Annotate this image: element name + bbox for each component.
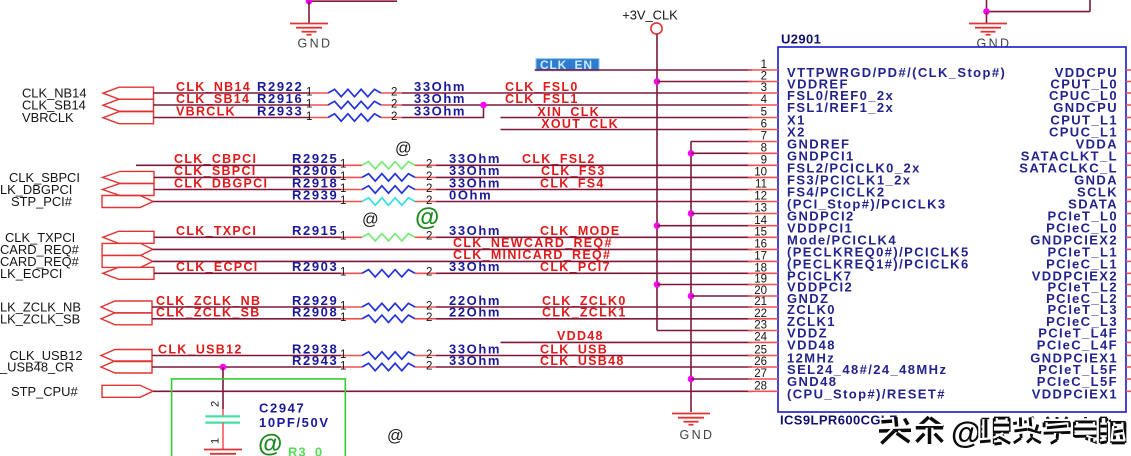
wire STP_CPU# (153, 390, 752, 392)
pin 23 stub (748, 330, 778, 332)
pin 15 stub (748, 236, 778, 238)
pin 5 stub (748, 117, 778, 119)
svg-text:24: 24 (754, 332, 767, 344)
svg-text:19: 19 (754, 274, 767, 286)
pin 13 right stub (1126, 213, 1131, 215)
pin 9 stub (748, 164, 778, 166)
svg-text:@: @ (362, 211, 379, 229)
wire CLK_FS3 (436, 176, 752, 178)
svg-text:2: 2 (426, 349, 432, 361)
junction capacitor tap (220, 364, 227, 371)
wire CLK_DBGPCI (154, 189, 341, 191)
pin 24 right stub (1126, 341, 1131, 343)
svg-text:12: 12 (754, 191, 767, 203)
svg-text:1: 1 (306, 98, 312, 110)
svg-text:18: 18 (754, 263, 767, 275)
pin 4 right stub (1126, 104, 1131, 106)
capacitor C2947 (205, 401, 240, 450)
resistor R2916 (306, 98, 402, 110)
pin 2 right stub (1126, 81, 1131, 83)
pin 21 right stub (1126, 306, 1131, 308)
wire XOUT_CLK (501, 129, 753, 131)
svg-text:1: 1 (340, 183, 346, 195)
wire pin 19 VDDPCI2 (657, 284, 752, 286)
svg-text:1: 1 (340, 171, 346, 183)
port CLK_DBGPCI (103, 184, 155, 196)
pin 9 right stub (1126, 164, 1131, 166)
wire CLK_MINICARD_REQ# (153, 260, 752, 262)
port STP_PCI# (102, 196, 153, 208)
svg-text:2: 2 (426, 300, 432, 312)
svg-text:1: 1 (340, 267, 346, 279)
pin 19 right stub (1126, 284, 1131, 286)
svg-text:25: 25 (754, 345, 767, 357)
svg-text:8: 8 (761, 143, 767, 155)
svg-text:CLK_USB12: CLK_USB12 (158, 342, 243, 356)
pin 10 stub (748, 176, 778, 178)
svg-text:2: 2 (391, 98, 397, 110)
svg-text:23: 23 (754, 320, 767, 332)
svg-text:STP_PCI#: STP_PCI# (11, 194, 73, 209)
pin 26 right stub (1126, 366, 1131, 368)
svg-text:17: 17 (754, 251, 767, 263)
svg-text:LK_ZCLK_SB: LK_ZCLK_SB (0, 311, 80, 326)
svg-text:VBRCLK: VBRCLK (22, 110, 74, 125)
resistor R2918 (340, 183, 436, 195)
port CLK_ZCLK_NB (101, 301, 152, 313)
wire top-left horizontal (309, 0, 397, 2)
pin 19 stub (748, 284, 778, 286)
svg-text:R2933: R2933 (257, 103, 303, 118)
port STP_CPU# (102, 385, 153, 397)
wire CLK_USB12 (152, 355, 341, 357)
svg-text:CLK_PCI7: CLK_PCI7 (540, 260, 611, 274)
pin 22 right stub (1126, 318, 1131, 320)
power +3V_CLK symbol (651, 23, 662, 34)
pin 3 right stub (1126, 92, 1131, 94)
svg-text:1: 1 (340, 159, 346, 171)
resistor R2943 (340, 360, 436, 372)
wire +3V_CLK vertical bus (656, 34, 658, 331)
wire STP_PCI# (153, 201, 341, 203)
port CLK_ECPCI (103, 267, 154, 279)
svg-text:R2939: R2939 (292, 187, 338, 202)
svg-text:CLK_FSL1: CLK_FSL1 (505, 92, 579, 106)
pin 25 stub (748, 355, 778, 357)
port CLK_NEWCARD_REQ# (102, 243, 153, 255)
pin 11 stub (748, 189, 778, 191)
port CLK_SB14 (103, 99, 154, 111)
svg-text:CLK_DBGPCI: CLK_DBGPCI (174, 176, 268, 190)
pin 15 right stub (1126, 236, 1131, 238)
wire CLK_USB (436, 355, 752, 357)
wire pin 13 GNDPCI2 (691, 213, 752, 215)
svg-text:33Ohm: 33Ohm (449, 259, 501, 274)
pin 18 stub (748, 272, 778, 274)
watermark Toutiao @gen wo xue dian nao (879, 415, 1126, 450)
svg-text:1: 1 (340, 300, 346, 312)
pin 7 right stub (1126, 141, 1131, 143)
pin 20 right stub (1126, 295, 1131, 297)
wire CLK_ZCLK_SB (152, 318, 341, 320)
svg-text:_USB48_CR: _USB48_CR (0, 360, 74, 375)
pin 3 stub (748, 92, 778, 94)
wire CLK_CBPCI (136, 164, 341, 166)
pin 20 stub (748, 295, 778, 297)
svg-text:1: 1 (306, 111, 312, 123)
wire CLK_ZCLK0 (436, 306, 752, 308)
wire capacitor branch vertical (222, 367, 224, 409)
ground GND bottom-center (672, 414, 714, 443)
wire CLK_EN (535, 69, 752, 71)
junction pin 20 (688, 293, 695, 300)
svg-text:22: 22 (754, 308, 767, 320)
junction top-left (306, 0, 313, 5)
ground below capacitor (204, 450, 242, 454)
wire CLK_SBPCI (154, 176, 341, 178)
svg-text:2: 2 (426, 171, 432, 183)
pin 6 right stub (1126, 129, 1131, 131)
svg-text:@: @ (395, 140, 412, 158)
pin 21 stub (748, 306, 778, 308)
svg-text:@: @ (387, 427, 404, 445)
port USB48_CR (101, 361, 152, 373)
svg-text:U2901: U2901 (781, 32, 821, 47)
pin 7 stub (748, 141, 778, 143)
svg-text:GND: GND (298, 37, 333, 51)
wire R2933 output jog (402, 105, 484, 118)
svg-text:2: 2 (426, 360, 432, 372)
resistor R2903 (340, 267, 436, 279)
svg-text:1: 1 (340, 195, 346, 207)
svg-text:2: 2 (426, 312, 432, 324)
svg-text:2: 2 (391, 86, 397, 98)
svg-text:28: 28 (754, 381, 767, 393)
svg-text:1: 1 (210, 438, 222, 444)
pin 24 stub (748, 341, 778, 343)
port CLK_TXPCI (103, 231, 154, 243)
pin 17 right stub (1126, 260, 1131, 262)
svg-text:9: 9 (761, 155, 767, 167)
svg-text:STP_CPU#: STP_CPU# (11, 384, 78, 399)
svg-text:1: 1 (761, 59, 767, 71)
port CLK_MINICARD_REQ# (102, 255, 153, 267)
wire CLK_ZCLK_NB (152, 306, 341, 308)
resistor R2908 (340, 312, 436, 324)
svg-text:2: 2 (391, 111, 397, 123)
svg-text:CLK_FS4: CLK_FS4 (540, 176, 605, 190)
pin 27 stub (748, 378, 778, 380)
svg-text:10PF/50V: 10PF/50V (259, 415, 330, 430)
svg-text:GND: GND (977, 37, 1012, 51)
port CLK_NB14 (103, 87, 154, 99)
svg-text:1: 1 (340, 349, 346, 361)
svg-text:1: 1 (340, 231, 346, 243)
svg-text:2: 2 (761, 71, 767, 83)
resistor R2925 (340, 159, 436, 171)
svg-text:11: 11 (755, 179, 767, 191)
svg-text:2: 2 (210, 401, 222, 407)
svg-text:LK_ECPCI: LK_ECPCI (0, 266, 62, 281)
resistor R2933 (306, 111, 402, 123)
svg-text:13: 13 (754, 203, 767, 215)
svg-text:@: @ (951, 415, 981, 450)
svg-text:4: 4 (761, 94, 768, 106)
svg-text:GND: GND (680, 428, 715, 442)
wire CLK_ZCLK1 (436, 318, 752, 320)
pin 14 stub (748, 225, 778, 227)
pin 1 right stub (1126, 69, 1131, 71)
svg-text:CLK_ECPCI: CLK_ECPCI (176, 260, 259, 274)
wire CLK_FSL1 (402, 104, 752, 106)
wire VDD48 (501, 341, 753, 343)
svg-text:+3V_CLK: +3V_CLK (622, 8, 678, 23)
pin 23 right stub (1126, 330, 1131, 332)
wire top-right vertical from edge (986, 0, 988, 12)
port CLK_ZCLK_SB (101, 313, 152, 325)
pin 12 right stub (1126, 201, 1131, 203)
wire CLK_PCI7 (436, 272, 752, 274)
svg-text:27: 27 (754, 368, 767, 380)
wire CLK_USB48 (436, 366, 752, 368)
pin 10 right stub (1126, 176, 1131, 178)
pin 6 stub (748, 129, 778, 131)
svg-text:16: 16 (754, 239, 767, 251)
svg-text:CLK_ZCLK_SB: CLK_ZCLK_SB (156, 306, 261, 320)
pin 18 right stub (1126, 272, 1131, 274)
ground GND top-left (290, 24, 332, 51)
svg-text:(CPU_Stop#)/RESET#: (CPU_Stop#)/RESET# (787, 386, 946, 401)
pin 14 right stub (1126, 225, 1131, 227)
pin 13 stub (748, 213, 778, 215)
svg-text:@: @ (258, 430, 282, 456)
svg-text:1: 1 (340, 360, 346, 372)
svg-text:10: 10 (754, 167, 767, 179)
wire CLK_NB14 (154, 92, 311, 94)
pin 25 right stub (1126, 355, 1131, 357)
resistor R2929 (340, 300, 436, 312)
pin 5 right stub (1126, 117, 1131, 119)
net label CLK_EN selected (536, 59, 599, 71)
svg-text:6: 6 (761, 119, 767, 131)
pin 27 right stub (1126, 378, 1131, 380)
junction pin 27 (688, 376, 695, 383)
svg-text:R2903: R2903 (292, 259, 338, 274)
svg-text:R2915: R2915 (292, 223, 338, 238)
svg-text:@: @ (415, 204, 439, 232)
port VBRCLK (103, 112, 154, 124)
svg-text:R2908: R2908 (292, 305, 338, 320)
wire CLK_FS4 (436, 189, 752, 191)
wire CLK_FSL2 (436, 164, 752, 166)
wire pin 27 GND48 (691, 378, 752, 380)
junction pin 13 (688, 210, 695, 217)
pin 16 right stub (1126, 248, 1131, 250)
wire VBRCLK (154, 117, 311, 119)
svg-text:5: 5 (761, 107, 767, 119)
wire top-right gnd drop (986, 12, 988, 24)
pin 17 stub (748, 260, 778, 262)
wire pin 2 VDDREF (657, 81, 752, 83)
svg-text:7: 7 (761, 131, 767, 143)
svg-text:R3_0: R3_0 (288, 445, 323, 456)
svg-text:ICS9LPR600CGLF: ICS9LPR600CGLF (780, 413, 898, 428)
svg-text:R2943: R2943 (292, 353, 338, 368)
resistor R2915 (340, 231, 436, 243)
svg-text:14: 14 (754, 215, 767, 227)
svg-text:2: 2 (426, 231, 432, 243)
pin 4 stub (748, 104, 778, 106)
pin 28 stub (748, 390, 778, 392)
pin 28 right stub (1126, 390, 1131, 392)
junction top-right (983, 8, 990, 15)
wire USB48_CR (152, 366, 341, 368)
resistor R2922 (306, 86, 402, 98)
wire pin 8 GNDPCI1 (691, 152, 752, 154)
wire pin 14 VDDPCI1 (657, 225, 752, 227)
pin 8 stub (748, 152, 778, 154)
svg-text:CLK_ZCLK1: CLK_ZCLK1 (542, 306, 627, 320)
wire CLK_TXPCI (154, 236, 341, 238)
wire ground vertical bus (690, 142, 692, 413)
port CLK_USB12 (101, 350, 152, 362)
wire top-left vertical drop (308, 1, 310, 23)
wire pin 12 PCICLK3 (436, 201, 752, 203)
pin 11 right stub (1126, 189, 1131, 191)
op-amp U2901 body (778, 47, 1126, 412)
svg-text:2: 2 (426, 183, 432, 195)
wire CLK_FSL0 (402, 92, 752, 94)
wire top-right horizontal (987, 11, 1091, 13)
wire XIN_CLK (501, 117, 753, 119)
svg-text:1: 1 (306, 86, 312, 98)
pin 8 right stub (1126, 152, 1131, 154)
svg-text:15: 15 (754, 227, 767, 239)
selection box capacitor (172, 379, 346, 456)
svg-text:26: 26 (754, 356, 767, 368)
svg-text:2: 2 (426, 159, 432, 171)
wire pin 20 GNDZ (691, 295, 752, 297)
pin 16 stub (748, 248, 778, 250)
svg-text:VDD48: VDD48 (557, 329, 604, 343)
svg-text:2: 2 (426, 267, 432, 279)
wire pin 7 GNDREF (691, 141, 752, 143)
pin 22 stub (748, 318, 778, 320)
wire CLK_ECPCI (154, 272, 341, 274)
junction R2933 to CLK_FSL1 (480, 102, 487, 109)
svg-text:1: 1 (340, 312, 346, 324)
resistor R2938 (340, 349, 436, 361)
wire CLK_SB14 (154, 104, 311, 106)
pin 26 stub (748, 366, 778, 368)
port CLK_SBPCI (103, 171, 155, 183)
pin 2 stub (748, 81, 778, 83)
pin 12 stub (748, 201, 778, 203)
junction pin 14 (654, 222, 661, 229)
wire top-right vertical to edge (1089, 0, 1091, 12)
resistor R2906 (340, 171, 436, 183)
junction pin 19 (654, 281, 661, 288)
svg-text:21: 21 (754, 296, 767, 308)
wire CLK_NEWCARD_REQ# (153, 248, 752, 250)
junction pin 8 (688, 150, 695, 157)
ground GND top-right (969, 24, 1011, 51)
pin 1 stub (748, 69, 778, 71)
svg-text:CLK_TXPCI: CLK_TXPCI (176, 224, 257, 238)
wire +3V_CLK into pin 23 (657, 330, 752, 332)
resistor R2939 (340, 195, 436, 207)
svg-text:CLK_USB48: CLK_USB48 (540, 354, 625, 368)
svg-text:VDDPCIEX1: VDDPCIEX1 (1032, 386, 1118, 401)
svg-text:VBRCLK: VBRCLK (176, 104, 236, 118)
junction pin 2 (654, 78, 661, 85)
svg-text:3: 3 (761, 82, 767, 94)
wire CLK_MODE (436, 236, 752, 238)
svg-text:C2947: C2947 (259, 401, 305, 416)
